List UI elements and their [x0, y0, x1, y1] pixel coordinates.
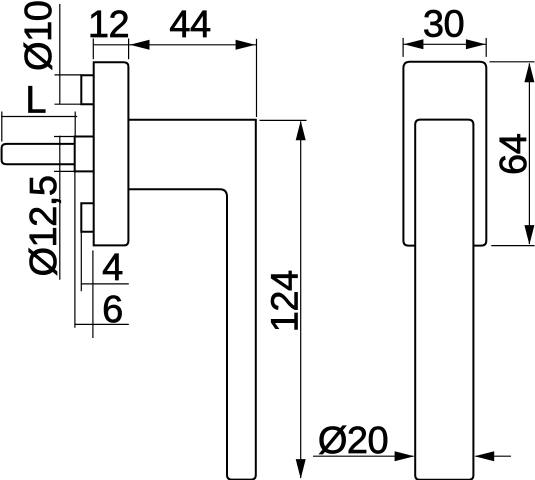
dimension L: [1, 80, 77, 142]
screw boss bottom: [81, 203, 93, 232]
rosette plate front view: [403, 62, 486, 246]
dimension 12: [88, 4, 129, 59]
svg-text:Ø12,5: Ø12,5: [23, 175, 65, 276]
svg-text:30: 30: [423, 3, 464, 45]
svg-text:4: 4: [102, 247, 123, 289]
svg-text:Ø20: Ø20: [318, 420, 388, 462]
dimension 4: [81, 232, 129, 338]
dimension D10: [18, 1, 81, 105]
handle grip front view: [415, 120, 473, 480]
dimension 64: [489, 62, 535, 246]
dimension D20: [313, 420, 511, 462]
dimension D12,5: [23, 136, 75, 280]
svg-text:6: 6: [102, 289, 123, 331]
svg-text:12: 12: [88, 4, 129, 46]
svg-text:124: 124: [264, 270, 306, 332]
svg-text:44: 44: [169, 4, 211, 46]
dimension 30: [403, 3, 486, 57]
spindle collar: [75, 137, 94, 172]
spindle: [2, 144, 75, 164]
svg-text:L: L: [25, 80, 46, 122]
rosette plate side view: [94, 62, 129, 245]
dimension 124: [260, 120, 307, 478]
svg-text:Ø10: Ø10: [18, 1, 60, 71]
screw boss top: [81, 75, 93, 104]
dimension 44: [129, 4, 257, 117]
handle neck and lever side view: [128, 120, 255, 480]
svg-text:64: 64: [493, 133, 535, 175]
dimension 6: [75, 171, 129, 331]
